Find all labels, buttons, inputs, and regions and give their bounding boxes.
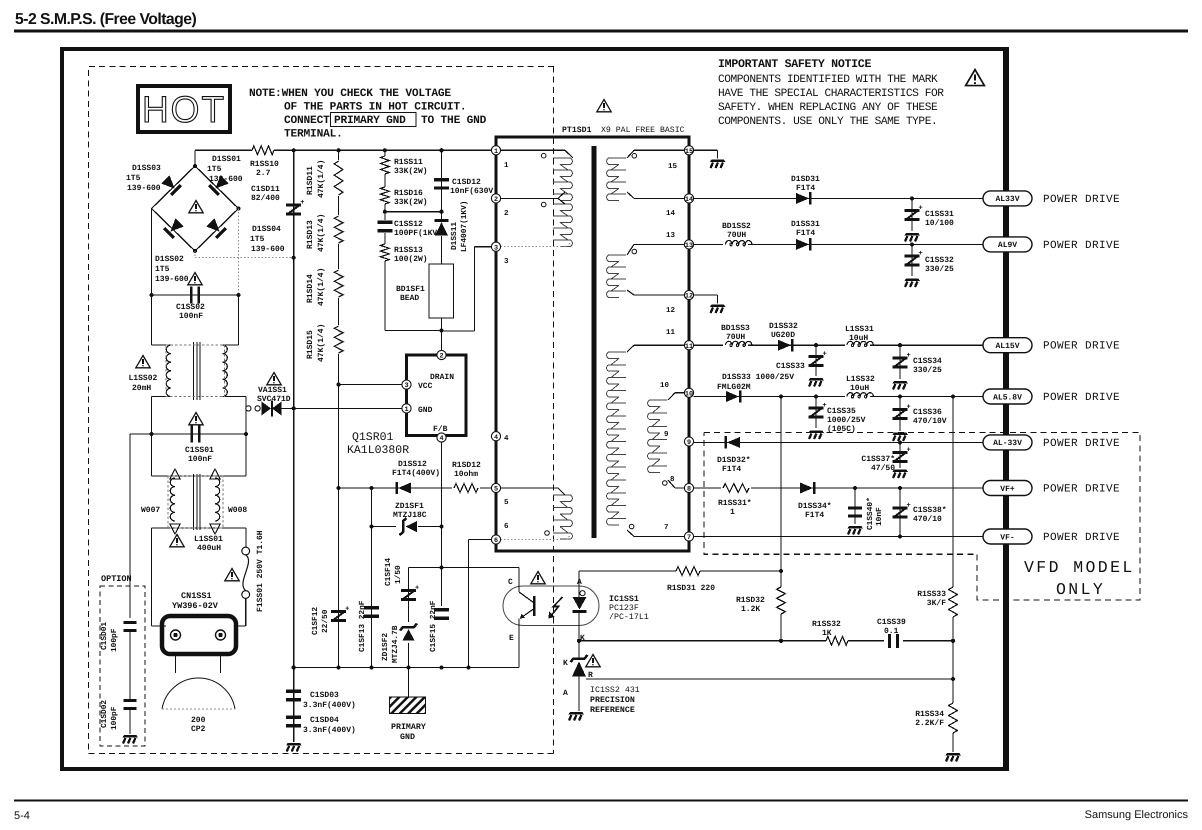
polarity dot winding 5-6 (545, 531, 550, 536)
svg-text:C1SS36: C1SS36 (913, 408, 942, 417)
svg-text:POWER DRIVE: POWER DRIVE (1043, 240, 1120, 252)
svg-text:47K(1/4): 47K(1/4) (317, 324, 326, 362)
svg-text:10/100: 10/100 (925, 219, 954, 228)
diode D1SS01 (208, 174, 229, 195)
output terminal AL9V (983, 237, 1032, 252)
VF- row wire (694, 536, 983, 538)
svg-text:139-600: 139-600 (209, 175, 243, 184)
node rail pin6 (466, 665, 470, 669)
ground pin12 (710, 305, 726, 314)
capacitor C1SD04 (286, 716, 301, 719)
secondary winding pins15-14 (607, 158, 626, 200)
svg-text:1: 1 (504, 162, 509, 170)
IC pin 2 DRAIN (437, 350, 446, 359)
diode D1SS02 (163, 217, 184, 238)
svg-text:R1SD12: R1SD12 (452, 461, 481, 470)
svg-text:0.1: 0.1 (884, 627, 899, 636)
svg-text:F1T4: F1T4 (796, 229, 815, 238)
svg-text:2: 2 (494, 196, 498, 204)
svg-text:W008: W008 (228, 506, 247, 515)
polarity dot winding 11-7 (629, 524, 634, 529)
svg-text:10: 10 (685, 390, 693, 398)
node zd1sf1 left (369, 525, 373, 529)
svg-text:+: + (907, 404, 911, 412)
svg-text:15: 15 (685, 148, 693, 156)
svg-text:100(2W): 100(2W) (394, 255, 428, 264)
svg-text:13: 13 (685, 242, 693, 250)
polarity dot winding 2-3 (541, 202, 546, 207)
svg-text:2.2K/F: 2.2K/F (915, 719, 944, 728)
svg-text:1000/25V: 1000/25V (827, 416, 866, 425)
polarity dot winding 15-14 (632, 154, 637, 159)
pin12 ground wire (694, 294, 718, 296)
wire bridge minus dotted (194, 251, 196, 258)
svg-text:AL33V: AL33V (995, 195, 1019, 204)
svg-text:R1SD13: R1SD13 (306, 220, 315, 249)
node AL9V cap (910, 242, 914, 246)
diode D1SS32 (778, 340, 791, 351)
wire pin3 tap (475, 246, 492, 248)
main border frame (62, 49, 1005, 769)
svg-text:14: 14 (685, 196, 693, 204)
svg-text:7: 7 (664, 524, 669, 532)
svg-text:OPTION: OPTION (101, 574, 132, 584)
node top rail C1SD11 (292, 148, 296, 152)
svg-text:MTZJ4.7B: MTZJ4.7B (391, 625, 400, 663)
svg-text:C1SD04: C1SD04 (310, 716, 339, 725)
capacitor C1SD01 (124, 621, 137, 624)
svg-text:AL15V: AL15V (995, 342, 1019, 351)
node rail c1sf12 (337, 665, 341, 669)
svg-text:VFD MODEL: VFD MODEL (1024, 558, 1135, 577)
node top rail C1SD12 (439, 148, 443, 152)
svg-text:11: 11 (666, 329, 676, 337)
svg-text:F/B: F/B (433, 425, 448, 434)
output terminal AL33V (983, 191, 1032, 206)
ground C1SS35 (809, 431, 825, 440)
resistor R1SS31 (721, 482, 751, 494)
IC Q1SR01 box (407, 355, 467, 436)
svg-text:C1SS31: C1SS31 (925, 210, 954, 219)
svg-text:1: 1 (730, 508, 735, 517)
svg-text:4: 4 (439, 435, 443, 443)
svg-text:C1SS39: C1SS39 (877, 618, 906, 627)
wire R1SD16 to C1SS12 (384, 204, 386, 220)
svg-text:AL-33V: AL-33V (993, 439, 1022, 448)
resistor R1SD16 (384, 174, 386, 187)
svg-text:NOTE:WHEN YOU CHECK THE VOLTAG: NOTE:WHEN YOU CHECK THE VOLTAGE (249, 88, 451, 100)
svg-text:UG20D: UG20D (771, 331, 795, 340)
output terminal VF+ (983, 481, 1032, 496)
svg-text:1: 1 (494, 148, 498, 156)
svg-text:PRECISION: PRECISION (590, 696, 635, 705)
plug dome 200 CP2 (175, 654, 177, 673)
svg-text:C1SD03: C1SD03 (310, 691, 339, 700)
wire c1sf15 row (409, 567, 520, 569)
pin15 ground wire (694, 149, 718, 151)
svg-text:5-2 S.M.P.S. (Free Voltage): 5-2 S.M.P.S. (Free Voltage) (15, 11, 196, 28)
svg-text:COMPONENTS IDENTIFIED WITH THE: COMPONENTS IDENTIFIED WITH THE MARK (718, 74, 938, 86)
node snubber row left (383, 210, 387, 214)
svg-text:CP2: CP2 (191, 725, 206, 734)
fuse warning mark (225, 569, 239, 581)
zener ZD1SF2 (400, 622, 417, 643)
svg-text:OF THE PARTS IN HOT CIRCUIT.: OF THE PARTS IN HOT CIRCUIT. (284, 102, 466, 114)
output terminal AL5.8V (983, 389, 1032, 404)
node C1SS01 right (244, 432, 248, 436)
svg-text:C1SS02: C1SS02 (176, 303, 205, 312)
svg-text:1T5: 1T5 (155, 265, 170, 274)
svg-text:C1SF14: C1SF14 (384, 558, 393, 586)
svg-text:POWER DRIVE: POWER DRIVE (1043, 532, 1120, 544)
output terminal AL-33V (983, 435, 1032, 450)
svg-text:33K(2W): 33K(2W) (394, 198, 428, 207)
node top rail R1SS11 (383, 148, 387, 152)
svg-text:C1SS32: C1SS32 (925, 256, 954, 265)
ground C1SS40 (848, 526, 864, 535)
svg-text:10nF: 10nF (875, 507, 884, 526)
svg-text:F1T4: F1T4 (722, 465, 741, 474)
svg-text:AL9V: AL9V (998, 241, 1017, 250)
secondary winding pins13-12 (607, 255, 626, 297)
svg-text:TERMINAL.: TERMINAL. (284, 129, 343, 141)
footer rule (14, 800, 1188, 802)
svg-text:C1SF13 22nF: C1SF13 22nF (358, 600, 367, 652)
resistor chain R1SD11 (338, 150, 340, 667)
secondary winding pins10-8 (648, 400, 667, 472)
svg-text:2: 2 (439, 353, 443, 361)
node FB c1sf15 row (439, 565, 443, 569)
svg-text:C1SS01: C1SS01 (185, 446, 214, 455)
primary winding pins5-6 (553, 495, 572, 539)
svg-text:100nF: 100nF (179, 312, 203, 321)
svg-text:100PF(1KV: 100PF(1KV (394, 229, 437, 238)
OPTION dashed box (100, 586, 145, 746)
fuse F1SS01 (245, 528, 247, 547)
capacitor C1SD03 (293, 668, 295, 743)
capacitor C1SF15 (434, 608, 449, 611)
svg-text:1T5: 1T5 (126, 174, 141, 183)
node C1SS38 top (898, 486, 902, 490)
svg-text:1T5: 1T5 (207, 165, 222, 174)
svg-text:15: 15 (668, 163, 678, 171)
svg-text:4: 4 (494, 434, 498, 442)
svg-text:139-600: 139-600 (251, 245, 285, 254)
node feedback tap (779, 394, 783, 398)
svg-text:F1T4: F1T4 (805, 511, 824, 520)
wire opto K row (579, 640, 826, 642)
node 431 R row (951, 677, 955, 681)
capacitor C1SF14 (401, 589, 416, 592)
svg-text:PC123F: PC123F (609, 604, 639, 613)
svg-text:C: C (508, 578, 513, 587)
output terminal AL15V (983, 338, 1032, 353)
transformer pin 8 (684, 483, 693, 492)
AL9V row wire (694, 243, 983, 245)
svg-text:139-600: 139-600 (127, 184, 161, 193)
ground pin15 (710, 160, 726, 169)
capacitor C1SS34 (899, 345, 901, 379)
svg-text:C1SF15 22nF: C1SF15 22nF (429, 600, 438, 652)
svg-text:D1SS32: D1SS32 (769, 322, 798, 331)
transformer pin 10 (684, 388, 693, 397)
svg-text:3.3nF(400V): 3.3nF(400V) (303, 726, 356, 735)
svg-text:R1SS34: R1SS34 (915, 710, 944, 719)
svg-text:C1SD11: C1SD11 (251, 185, 280, 194)
capacitor C1SF13 (364, 606, 379, 609)
opto light arrow (550, 597, 563, 617)
svg-text:100nF: 100nF (188, 455, 212, 464)
node C1SS01 left (149, 432, 153, 436)
svg-text:ONLY: ONLY (1056, 580, 1105, 599)
node GND row x293 (292, 406, 296, 410)
node bridge minus (292, 256, 296, 260)
wire feedback tap column (780, 397, 782, 588)
svg-text:F1T4: F1T4 (796, 184, 815, 193)
svg-text:8: 8 (687, 486, 691, 494)
PRIMARY GND box (408, 668, 410, 698)
svg-text:W007: W007 (141, 506, 160, 515)
node opto K row (577, 639, 581, 643)
node C1SS40 (853, 486, 857, 490)
svg-text:R1SD32: R1SD32 (736, 596, 765, 605)
svg-text:1/50: 1/50 (394, 565, 403, 584)
polarity dot winding 10-8 (663, 481, 668, 486)
svg-text:100pF: 100pF (110, 628, 119, 652)
svg-text:5: 5 (504, 499, 509, 507)
wire pin3 to winding (dotted) (501, 246, 567, 248)
node D1SS12 row x338 (337, 486, 341, 490)
svg-text:D1SS12: D1SS12 (398, 460, 427, 469)
inductor L1SS31 (845, 339, 870, 346)
node C1SS35 (814, 394, 818, 398)
svg-text:400uH: 400uH (197, 544, 221, 553)
bridge rectifier frame (152, 166, 239, 251)
svg-text:10nF(630V: 10nF(630V (450, 187, 493, 196)
wire R1SD32 bottom (780, 614, 782, 641)
ferrite bead BD1SF1 (429, 264, 454, 318)
opto phototransistor (518, 568, 520, 593)
svg-text:1T5: 1T5 (250, 235, 265, 244)
transformer pin 11 (684, 341, 693, 350)
node R1SS33 top (951, 394, 955, 398)
node C1SS02 right (236, 293, 240, 297)
resistor R1SD13 (333, 215, 344, 244)
wire pin6 column (469, 539, 492, 541)
svg-text:+: + (823, 351, 827, 359)
node K row right (951, 639, 955, 643)
svg-text:TO THE GND: TO THE GND (421, 115, 487, 127)
connector CN1SS1 (162, 616, 236, 654)
ground IC1SS2 (569, 712, 585, 721)
node snubber row right (439, 210, 443, 214)
node D1SS12 row c1sf13 (369, 486, 373, 490)
wire F/B column (441, 442, 443, 606)
svg-text:4: 4 (504, 435, 509, 443)
wire L1SS01 left leg (151, 528, 153, 626)
svg-text:10uH: 10uH (849, 334, 868, 343)
wire R1SS34 bottom (952, 733, 954, 752)
node C1SS36 (898, 394, 902, 398)
wire C1SF14 column (408, 568, 410, 668)
ground C1SS34 (893, 381, 909, 390)
IC1SS2 warning mark (586, 655, 600, 667)
AL5.8V row wire (694, 396, 983, 398)
svg-text:C1SS33: C1SS33 (776, 362, 805, 371)
ground C1SS32 (905, 279, 921, 288)
output terminal VF- (983, 529, 1032, 544)
node FB zener row (439, 525, 443, 529)
svg-text:D1SS11: D1SS11 (450, 222, 459, 250)
svg-text:C1SS40*: C1SS40* (866, 497, 875, 530)
diode D1SS31 (796, 239, 809, 250)
svg-text:PRIMARY: PRIMARY (391, 723, 426, 732)
varistor VA1SS1 (246, 406, 251, 411)
wire R1SS33 column (952, 397, 954, 588)
transformer PT1SD1 warning mark (597, 100, 611, 112)
svg-text:3: 3 (494, 244, 498, 252)
node bridge bottom corner (193, 249, 197, 253)
L1SS02 warning mark (136, 356, 150, 368)
svg-text:200: 200 (191, 716, 206, 725)
node C1SS37 (898, 440, 902, 444)
capacitor C1SS31 (911, 198, 913, 231)
svg-text:E: E (509, 634, 514, 643)
diode D1SS03 (160, 174, 181, 195)
wire 431 R row (586, 678, 953, 680)
svg-text:9: 9 (687, 439, 691, 447)
resistor R1SS34 (949, 703, 958, 733)
svg-text:D1SS02: D1SS02 (155, 255, 184, 264)
svg-text:3.3nF(400V): 3.3nF(400V) (303, 701, 356, 710)
svg-text:7: 7 (687, 534, 691, 542)
svg-text:R1SS10: R1SS10 (250, 160, 279, 169)
svg-text:C1SD02: C1SD02 (100, 700, 109, 728)
transformer pin 1 (491, 146, 500, 155)
resistor R1SD32 (777, 587, 786, 614)
transformer pin 13 (684, 240, 693, 249)
choke L1SS01 (151, 434, 153, 476)
svg-text:5-4: 5-4 (14, 810, 30, 822)
VFD MODEL ONLY dashed box (704, 433, 1140, 601)
polarity dot winding 1-2 (541, 153, 546, 158)
VF+ row wire (694, 487, 983, 489)
AL15V row wire (694, 344, 983, 346)
svg-text:KA1L0380R: KA1L0380R (347, 444, 409, 457)
resistor R1SS32 (826, 636, 848, 645)
svg-text:POWER DRIVE: POWER DRIVE (1043, 194, 1120, 206)
wire pin6 to winding (dotted) (501, 539, 567, 541)
node C1SS34 (898, 343, 902, 347)
safety notice warning mark (966, 70, 985, 86)
transformer core (591, 146, 596, 538)
svg-text:C1SD12: C1SD12 (452, 178, 481, 187)
wire C1SD01 to C1SD02 (129, 629, 131, 701)
svg-text:9: 9 (664, 430, 669, 439)
svg-text:6: 6 (494, 537, 498, 545)
node rail c1sf15 (439, 665, 443, 669)
diode D1SS33 (726, 391, 739, 402)
node AL33V cap (910, 196, 914, 200)
shunt reg IC1SS2 431 (571, 655, 588, 662)
svg-text:GND: GND (418, 406, 433, 415)
IC pin 3 VCC (402, 380, 411, 389)
svg-text:+: + (907, 502, 911, 510)
svg-text:L1SS31: L1SS31 (845, 325, 874, 334)
svg-text:L1SS32: L1SS32 (846, 375, 875, 384)
svg-text:5: 5 (494, 486, 498, 494)
svg-text:1.2K: 1.2K (741, 605, 760, 614)
svg-text:D1SS31: D1SS31 (791, 220, 820, 229)
diode D1SS34 (800, 483, 813, 494)
wire primary bottom rail (294, 667, 519, 669)
transformer pin 15 (684, 146, 693, 155)
svg-text:A: A (563, 689, 568, 698)
svg-text:D1SS04: D1SS04 (252, 225, 281, 234)
svg-text:A: A (577, 578, 582, 587)
wire top rail DC+ (195, 149, 252, 151)
capacitor C1SS01 (152, 433, 247, 435)
AL-33V row wire (694, 441, 983, 443)
ground option (129, 707, 131, 734)
svg-text:BD1SS2: BD1SS2 (722, 222, 751, 231)
node K row R1SD32 (779, 639, 783, 643)
L1SS01 warning mark (170, 535, 184, 547)
node C1SS38 bottom (898, 534, 902, 538)
AL33V row wire (694, 197, 983, 199)
node C1SS02 left (149, 293, 153, 297)
wire VCC row (339, 384, 402, 386)
svg-text:C1SD01: C1SD01 (100, 622, 109, 650)
wire bridge AC right dotted (238, 209, 240, 296)
svg-text:BD1SF1: BD1SF1 (396, 285, 425, 294)
transformer PT1SD1 frame (496, 137, 689, 551)
svg-text:DRAIN: DRAIN (430, 373, 454, 382)
node C1SS33 (814, 343, 818, 347)
svg-text:R1SD14: R1SD14 (306, 274, 315, 303)
svg-text:47/50: 47/50 (871, 464, 895, 473)
capacitor C1SD02 (124, 699, 137, 702)
svg-text:POWER DRIVE: POWER DRIVE (1043, 392, 1120, 404)
node bridge top corner (193, 164, 197, 168)
svg-text:Samsung Electronics: Samsung Electronics (1085, 809, 1189, 821)
svg-text:VF+: VF+ (1000, 485, 1015, 494)
wire snubber row (385, 211, 442, 213)
svg-text:100pF: 100pF (110, 706, 119, 730)
svg-text:C1SS37*: C1SS37* (861, 455, 895, 464)
line filter L1SS02 (151, 295, 153, 345)
node bottom rail x293 (292, 665, 296, 669)
transformer pin 7 (684, 532, 693, 541)
svg-text:MTZJ18C: MTZJ18C (393, 511, 427, 520)
svg-text:CONNECT: CONNECT (284, 115, 330, 127)
node top rail R1SD11 (337, 148, 341, 152)
capacitor C1SS38 (899, 488, 901, 537)
capacitor C1SS39 (888, 634, 891, 648)
primary winding pins1-2 (553, 158, 572, 200)
HOT box (138, 86, 230, 132)
svg-text:L1SS02: L1SS02 (129, 374, 158, 383)
svg-text:D1SS34*: D1SS34* (798, 502, 832, 511)
svg-text:12: 12 (685, 293, 693, 301)
node R1SD32 top (779, 569, 783, 573)
svg-text:33K(2W): 33K(2W) (394, 167, 428, 176)
svg-text:VA1SS1: VA1SS1 (258, 386, 287, 395)
svg-text:/PC-17L1: /PC-17L1 (609, 612, 649, 622)
svg-text:X9 PAL FREE BASIC: X9 PAL FREE BASIC (601, 126, 685, 135)
svg-text:470/10: 470/10 (913, 515, 942, 524)
wire opto emitter to rail (518, 625, 520, 668)
